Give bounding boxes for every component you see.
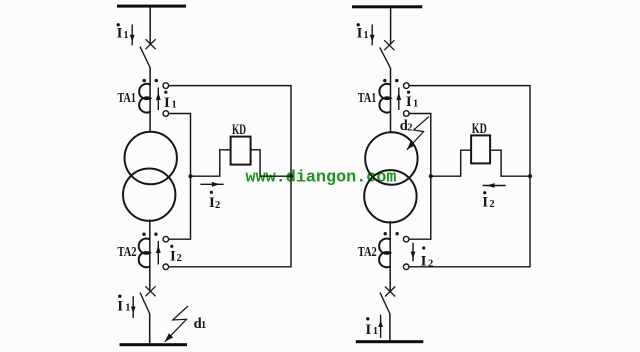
svg-text:1: 1 [172, 100, 177, 111]
svg-text:I: I [117, 298, 123, 314]
svg-text:I: I [164, 95, 170, 111]
svg-text:KD: KD [472, 121, 487, 137]
svg-text:I: I [406, 94, 412, 110]
svg-text:2: 2 [177, 253, 182, 264]
svg-text:TA1: TA1 [118, 91, 137, 106]
svg-text:I: I [482, 195, 488, 211]
svg-text:TA2: TA2 [118, 245, 137, 260]
svg-text:TA2: TA2 [358, 245, 377, 260]
svg-text:2: 2 [407, 122, 412, 133]
svg-text:1: 1 [413, 99, 418, 110]
svg-text:I: I [365, 322, 371, 338]
svg-text:1: 1 [123, 30, 128, 41]
svg-text:TA1: TA1 [358, 91, 377, 106]
svg-text:1: 1 [125, 302, 130, 313]
svg-text:I: I [170, 249, 176, 265]
svg-text:1: 1 [201, 320, 206, 331]
svg-text:2: 2 [489, 199, 494, 210]
svg-text:I: I [357, 26, 363, 42]
svg-text:I: I [117, 26, 123, 42]
svg-text:2: 2 [215, 200, 220, 211]
svg-text:1: 1 [373, 326, 378, 337]
svg-text:KD: KD [232, 122, 246, 138]
svg-text:2: 2 [428, 259, 433, 270]
svg-text:1: 1 [363, 30, 368, 41]
svg-text:I: I [421, 254, 427, 270]
